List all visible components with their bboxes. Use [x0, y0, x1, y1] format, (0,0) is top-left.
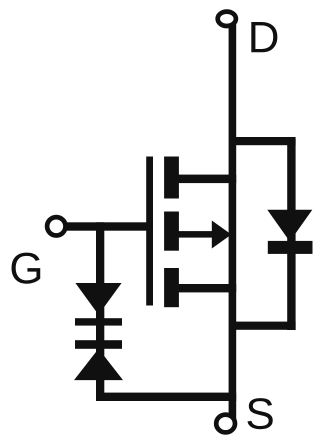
- label S: [247, 398, 272, 429]
- label G: [12, 253, 41, 284]
- diode Z1 anode triangle (pointing down): [75, 283, 121, 315]
- diode Z2 anode triangle (pointing up): [74, 349, 123, 380]
- terminal G circle: [47, 217, 65, 235]
- diode Z2 cathode bar: [75, 340, 122, 349]
- wire: right branch vertical (body diode net): [287, 139, 295, 330]
- wire: main drain-source vertical line: [229, 20, 237, 428]
- wire: zener bottom wire to source line: [96, 393, 236, 401]
- diode D1 cathode bar: [268, 241, 313, 254]
- wire: body arrow line: [171, 231, 218, 238]
- transistor Q1 gate plate: [146, 157, 153, 306]
- terminal D circle: [218, 12, 236, 26]
- transistor Q1 drain channel bar: [164, 157, 179, 199]
- diode D1 body diode triangle (anode, pointing down): [267, 210, 312, 242]
- diode Z1 cathode bar: [75, 318, 122, 325]
- transistor Q1 body channel bar: [164, 212, 179, 251]
- wire: bottom branch from body diode to source line: [229, 322, 296, 330]
- label D: [251, 22, 277, 52]
- wire: zener branch vertical: [96, 222, 104, 401]
- wire: gate wire from G terminal: [60, 222, 153, 230]
- terminal S circle: [216, 415, 235, 433]
- wire: top branch to body diode: [229, 137, 296, 145]
- transistor Q1 body arrow head: [212, 221, 232, 249]
- wire: source connection: [171, 284, 236, 292]
- transistor Q1 source channel bar: [164, 268, 179, 307]
- wire: drain connection: [171, 175, 236, 184]
